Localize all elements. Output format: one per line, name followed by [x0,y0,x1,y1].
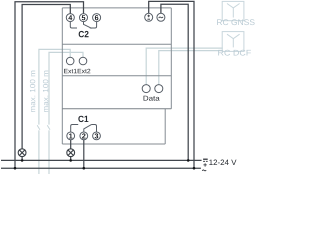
junction dot terminal2-wire2 [83,167,86,170]
antenna RC GNSS box [222,1,244,20]
label max. 100 m (cable 1) [30,71,35,112]
label C2 [79,31,89,37]
divider below Ext section [62,75,171,77]
label 12-24 V [209,160,236,165]
terminal Ext1 [66,57,74,65]
wire Data1 to antenna (pale) [146,48,223,85]
terminal Data B [155,85,163,93]
divider above C1 section [62,108,171,110]
lamp E1 [18,149,26,161]
bottom supply wire 2 [1,167,201,169]
terminal +/- (power) [145,13,153,21]
relay contact C1 [71,124,97,131]
label RC GNSS [217,19,255,25]
terminal 6 [93,14,101,22]
device box outline [62,8,171,144]
wire terminal ~ to bottom wire 1 [161,4,188,160]
divider below C2 section [62,43,171,45]
junction dot lamp2-wire1 [69,159,72,162]
wire terminal 2 to bottom wire 2 [83,140,85,168]
wire Data2 to antenna (pale) [159,51,222,85]
junction dot left-wire2 [14,167,17,170]
antenna RC DCF box [222,32,244,52]
terminal 3 [93,132,101,140]
bottom supply wire 1 [1,159,202,161]
antenna RC DCF symbol [227,34,240,47]
supply DC dashed bar [203,160,208,162]
label RC DCF [218,50,251,56]
supply DC bar [203,158,208,160]
label Data [144,96,160,101]
terminal ~ (power) [157,13,165,21]
wire terminal +/- to bottom wire 2 [149,1,194,168]
terminal 5 [80,14,88,22]
terminal 4 [66,14,74,22]
junction dot right-inner-wire1 [187,159,190,162]
wire terminal 4 to lamp 1 [22,5,70,150]
wire Ext1 cable (pale) [37,49,70,174]
wire Ext2 cable (pale) [47,52,83,174]
antenna RC GNSS symbol [227,4,240,18]
label Ext1 Ext2 [64,69,90,73]
terminal Data A [142,85,150,93]
junction dot right-outer-wire2 [193,167,196,170]
terminal 2 [80,132,88,140]
terminal 1 [67,132,75,140]
wire terminal 5 to bottom wire 2 [15,2,84,168]
label max. 100 m (cable 2) [43,71,48,112]
label C1 [78,116,88,122]
wire terminal 1 to lamp 2 [70,140,72,149]
junction dot lamp1-wire1 [21,159,24,162]
lamp E2 [67,149,75,161]
relay contact C2 [70,22,96,29]
supply AC tilde [202,169,206,172]
terminal Ext2 [79,57,87,65]
supply plus sign [203,163,206,166]
